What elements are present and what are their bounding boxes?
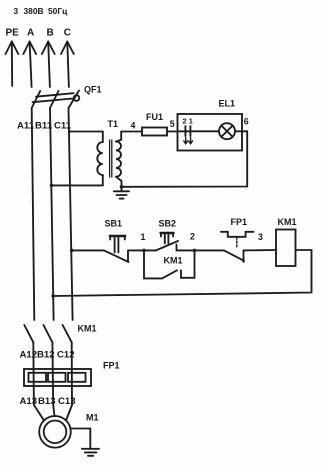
svg-text:SB2: SB2 bbox=[159, 219, 177, 229]
svg-text:3: 3 bbox=[14, 6, 19, 16]
thermal contact FP1 (NC) bbox=[221, 232, 254, 262]
wire C contact to FP1 heater bbox=[71, 342, 73, 405]
svg-text:6: 6 bbox=[244, 117, 249, 127]
svg-text:2: 2 bbox=[183, 117, 187, 126]
arrow phase B bbox=[42, 42, 55, 88]
svg-text:A: A bbox=[27, 28, 34, 39]
wire bus C bbox=[69, 108, 73, 320]
svg-text:B: B bbox=[47, 28, 54, 39]
KM1 holding contact branch bbox=[144, 250, 195, 278]
node 1 bbox=[142, 249, 146, 253]
wire T1 primary bottom to bus B bbox=[52, 175, 103, 185]
fuse FU1 bbox=[142, 128, 167, 136]
node C-T1 junction bbox=[68, 130, 71, 133]
svg-text:KM1: KM1 bbox=[78, 324, 97, 334]
wire C tap to SB1 bbox=[72, 249, 104, 251]
svg-text:3: 3 bbox=[258, 232, 263, 242]
connector pin 1 bbox=[189, 126, 191, 136]
svg-text:EL1: EL1 bbox=[219, 99, 236, 109]
wire pins to lamp bbox=[185, 130, 219, 132]
transformer T1 core bbox=[110, 140, 112, 177]
ground at motor bbox=[82, 449, 99, 456]
lamp EL1 bbox=[219, 123, 235, 139]
ground at T1 secondary bbox=[114, 187, 129, 199]
connector plug arrows bbox=[184, 138, 193, 144]
thermal relay FP1 heater block bbox=[24, 369, 91, 386]
connector / lamp enclosure box bbox=[178, 114, 243, 151]
svg-text:4: 4 bbox=[131, 121, 136, 131]
wire bus A bbox=[32, 108, 35, 320]
svg-text:1: 1 bbox=[141, 232, 146, 242]
wire C to motor bbox=[66, 405, 72, 421]
svg-text:M1: M1 bbox=[86, 413, 99, 423]
wire bus B bbox=[50, 108, 54, 320]
pushbutton SB1 (NC stop) bbox=[104, 236, 129, 262]
wire A contact to FP1 heater bbox=[32, 342, 35, 405]
wire A to motor bbox=[34, 405, 44, 421]
phase labels PE A B C bbox=[6, 28, 72, 39]
node secondary-ground junction bbox=[120, 185, 124, 189]
node 2 bbox=[193, 249, 197, 253]
pin number labels 2 1 bbox=[183, 117, 193, 126]
svg-text:FP1: FP1 bbox=[231, 217, 248, 227]
transformer T1 secondary winding bbox=[116, 142, 121, 177]
svg-text:B12: B12 bbox=[37, 350, 55, 361]
svg-text:50Гц: 50Гц bbox=[48, 6, 68, 16]
motor M1 bbox=[39, 416, 71, 448]
svg-text:C: C bbox=[64, 28, 71, 39]
svg-text:PE: PE bbox=[6, 28, 20, 39]
svg-text:A12: A12 bbox=[20, 350, 38, 361]
wire C to T1 primary top bbox=[69, 132, 102, 143]
svg-text:5: 5 bbox=[170, 119, 175, 129]
node B-return junction bbox=[51, 294, 55, 298]
contactor coil KM1 bbox=[276, 230, 296, 267]
svg-text:KM1: KM1 bbox=[278, 217, 297, 227]
wire lamp to box edge bbox=[235, 130, 242, 132]
wire motor to ground bbox=[70, 429, 90, 449]
wire 6 return loop bbox=[122, 131, 248, 187]
svg-text:2: 2 bbox=[190, 232, 195, 242]
node B-T1 junction bbox=[50, 184, 54, 188]
wire SB2 to node 2 bbox=[177, 249, 195, 251]
wire node 2 to FP1 bbox=[195, 249, 225, 251]
title text 3 380V 50Hz bbox=[14, 6, 69, 16]
arrow PE bbox=[6, 42, 19, 87]
svg-text:SB1: SB1 bbox=[105, 219, 123, 229]
svg-text:1: 1 bbox=[189, 117, 193, 126]
wire T1 secondary bottom bbox=[116, 177, 122, 187]
arrow phase A bbox=[23, 42, 36, 88]
arrow phase C bbox=[61, 42, 74, 88]
contactor KM1 main contacts bbox=[24, 325, 71, 342]
svg-text:QF1: QF1 bbox=[84, 85, 102, 95]
wire B contact to FP1 heater bbox=[51, 342, 54, 405]
svg-text:FU1: FU1 bbox=[146, 112, 163, 122]
svg-text:380В: 380В bbox=[24, 6, 44, 16]
node C-control tap bbox=[70, 249, 74, 253]
wire B to motor bbox=[53, 405, 54, 416]
wire 3 to coil bbox=[244, 249, 277, 251]
svg-text:C12: C12 bbox=[57, 350, 75, 361]
svg-text:FP1: FP1 bbox=[103, 361, 120, 371]
svg-text:T1: T1 bbox=[108, 119, 119, 129]
wire SB1 to node 1 bbox=[128, 249, 156, 251]
svg-text:KM1: KM1 bbox=[164, 256, 183, 266]
wire coil return to bus B bbox=[53, 250, 311, 296]
wire 5 into connector box bbox=[167, 130, 185, 132]
svg-text:C13: C13 bbox=[58, 396, 76, 407]
circuit breaker QF1 bbox=[32, 91, 80, 109]
pushbutton SB2 (NO start) bbox=[156, 233, 178, 250]
connector pin 2 bbox=[184, 126, 186, 136]
wire T1 secondary top (wire 4) bbox=[116, 132, 142, 142]
transformer T1 primary winding bbox=[97, 142, 103, 175]
